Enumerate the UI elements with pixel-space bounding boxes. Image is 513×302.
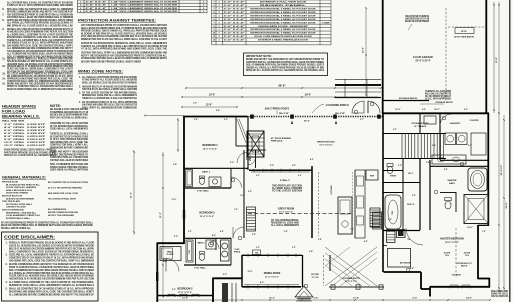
closet shelf top: [248, 149, 266, 151]
bedroom4 closet walls: [235, 116, 237, 146]
svg-text:ANCHOR BOLTS AT: ANCHOR BOLTS AT: [2, 195, 23, 198]
svg-text:NOTE:: NOTE:: [50, 104, 61, 108]
svg-text:13.: 13.: [2, 72, 6, 75]
svg-text:2X12 UNLESS NOTED OTHERWISE AN: 2X12 UNLESS NOTED OTHERWISE ANCHOR BOLTS…: [81, 35, 167, 38]
svg-text:EXTERIOR & FULL VIEW DOOR: EXTERIOR & FULL VIEW DOOR: [260, 2, 307, 4]
svg-text:CONTRACTOR SHALL VERIFY ALL: CONTRACTOR SHALL VERIFY ALL: [50, 144, 89, 147]
svg-text:COUNTER: COUNTER: [470, 120, 480, 122]
svg-text:2'-0": 2'-0": [256, 175, 260, 177]
garage center dashed line: [445, 8, 447, 100]
svg-text:8'-0" OPNG: 8'-0" OPNG: [4, 136, 24, 138]
stair treads: [401, 134, 403, 158]
bedroom3 door arc: [233, 227, 244, 238]
svg-text:1 3/4" VNYL CASEMENT GRIDS SGL: 1 3/4" VNYL CASEMENT GRIDS SGL 57 SCHLTE…: [111, 7, 178, 10]
svg-text:3'-0" X 6'-8": 3'-0" X 6'-8": [224, 15, 245, 17]
svg-text:2'-0": 2'-0": [298, 175, 302, 177]
svg-text:DOUBLE JOISTS UNDER ALL PARALL: DOUBLE JOISTS UNDER ALL PARALLEL PARTITI…: [7, 57, 73, 60]
svg-text:CODE AND ALL LOCAL AMENDMENTS: CODE AND ALL LOCAL AMENDMENTS THERETO AL…: [9, 254, 94, 257]
svg-text:12'-0" X 10'-0": 12'-0" X 10'-0": [319, 145, 332, 147]
exterior wall: bedroom4 top: [184, 116, 247, 118]
svg-text:MID SPAN OF ALL FLOOR JOISTS A: MID SPAN OF ALL FLOOR JOISTS ALL HEADERS…: [7, 24, 73, 27]
svg-text:14'-0": 14'-0": [467, 226, 472, 229]
svg-text:2'-8" X 6'-8": 2'-8" X 6'-8": [86, 1, 107, 3]
bath3 vanity: [209, 177, 221, 187]
svg-text:BEAR ON UNDISTURBED SOIL AT MI: BEAR ON UNDISTURBED SOIL AT MINIMUM DEPT…: [1, 224, 93, 227]
svg-text:ANCHOR BOLTS AT 48 INCHES ON C: ANCHOR BOLTS AT 48 INCHES ON CENTER MINI…: [82, 85, 137, 88]
svg-text:6X6 CYPRESS POSTS: 6X6 CYPRESS POSTS: [265, 109, 290, 111]
svg-text:CODE AND ALL LOCAL AMENDMENTS: CODE AND ALL LOCAL AMENDMENTS: [50, 128, 88, 131]
svg-text:FOOTINGS SHALL BEAR ON UNDISTU: FOOTINGS SHALL BEAR ON UNDISTURBED SOIL …: [7, 16, 73, 19]
svg-text:2'-8": 2'-8": [309, 251, 313, 253]
center west wall: [382, 113, 384, 272]
svg-text:6'-0" OPNG: 6'-0" OPNG: [4, 133, 24, 135]
sheet right border: [509, 0, 511, 302]
svg-text:6'-8": 6'-8": [432, 145, 436, 147]
svg-text:11' CLG: 11' CLG: [312, 277, 319, 279]
svg-text:ANCHOR BOLTS AT 48: ANCHOR BOLTS AT 48: [405, 18, 430, 21]
svg-text:MASTER: MASTER: [448, 179, 457, 182]
svg-text:FINISH GRADE PROVIDE DOUBLE: FINISH GRADE PROVIDE DOUBLE: [50, 166, 88, 169]
svg-text:PRIOR TO CONSTRUCTION ALL FOUN: PRIOR TO CONSTRUCTION ALL FOUNDATION FOO…: [9, 266, 94, 269]
garage south wall: [382, 112, 489, 114]
svg-text:GRADE PROVIDE DOUBLE JOISTS UN: GRADE PROVIDE DOUBLE JOISTS UNDER ALL PA…: [4, 149, 56, 152]
svg-text:THERETO ALL EXTERIOR WALLS SHA: THERETO ALL EXTERIOR WALLS SHALL BE CONS…: [7, 39, 74, 42]
svg-text:INTERIOR HORIZONTAL 6 PANEL HC: INTERIOR HORIZONTAL 6 PANEL HC POCKET DO…: [250, 11, 316, 14]
svg-text:CONSTRUCTION ALL FOUNDATION: CONSTRUCTION ALL FOUNDATION: [50, 156, 88, 159]
svg-text:6.: 6.: [2, 8, 4, 11]
toilet master: [445, 201, 451, 209]
svg-text:STORAGE ABOVE: STORAGE ABOVE: [435, 101, 453, 104]
svg-text:3'-0" X 6'-8": 3'-0" X 6'-8": [224, 5, 245, 7]
svg-text:SHALL BEAR ON UNDISTURBED SOIL: SHALL BEAR ON UNDISTURBED SOIL AT MINIMU…: [81, 27, 167, 30]
svg-text:2.: 2.: [79, 86, 81, 88]
svg-text:2'-8" X 6'-8": 2'-8" X 6'-8": [86, 8, 107, 10]
bath3 toilet: [199, 178, 204, 185]
svg-text:5'-8": 5'-8": [318, 239, 322, 241]
svg-text:DEPTH BELOW FINISH GRADE PROVI: DEPTH BELOW FINISH GRADE PROVIDE DOUBLE …: [7, 19, 73, 22]
svg-text:AT 16 O.C. WITH APPROVED SHEAT: AT 16 O.C. WITH APPROVED SHEATHING: [50, 138, 88, 141]
svg-text:BELOW FINISH GRADE PROVIDE DOU: BELOW FINISH GRADE PROVIDE DOUBLE JOISTS…: [81, 61, 141, 64]
svg-text:11'-6" X 11'-0": 11'-6" X 11'-0": [178, 292, 192, 294]
svg-text:TO THE LATEST EDITION: TO THE LATEST EDITION: [272, 190, 302, 193]
svg-text:4'-0": 4'-0": [260, 281, 264, 284]
svg-text:STUDS AT 16 O.C. WITH APPROVED: STUDS AT 16 O.C. WITH APPROVED SHEATHING…: [7, 4, 73, 7]
entry steps: [296, 296, 312, 298]
svg-text:PWDR: PWDR: [390, 176, 396, 178]
east wall main: [487, 113, 489, 226]
svg-text:THE DESIGNER OF ANY DISCREPANC: THE DESIGNER OF ANY DISCREPANCIES PRIOR …: [7, 50, 73, 53]
svg-text:11.: 11.: [2, 57, 6, 60]
svg-text:4'-6": 4'-6": [422, 108, 426, 111]
svg-text:5'-0" OPNG: 5'-0" OPNG: [4, 130, 24, 132]
svg-text:2-2X12 SYP: 2-2X12 SYP: [27, 142, 46, 144]
svg-text:2"X6" WALL: 2"X6" WALL: [194, 266, 206, 269]
svg-text:3'-6": 3'-6": [174, 236, 178, 238]
svg-text:BATH 2: BATH 2: [197, 242, 205, 245]
svg-text:BEFORE COMMENCING WORK AND NOT: BEFORE COMMENCING WORK AND NOTIFY THE DE…: [9, 263, 94, 266]
svg-text:WALL SIZE HDR: WALL SIZE HDR: [2, 120, 25, 123]
covered entry hatch: [325, 247, 377, 286]
svg-text:DINING ROOM: DINING ROOM: [264, 272, 280, 275]
svg-text:3'-0": 3'-0": [188, 231, 192, 233]
svg-text:AND SIDING PER LOCAL CODE THE: AND SIDING PER LOCAL CODE THE CONTRACTOR…: [9, 259, 94, 262]
foyer east wall: [329, 255, 331, 271]
svg-text:21'-0": 21'-0": [160, 212, 162, 218]
svg-text:TO THE LATEST EDITION OF THE I: TO THE LATEST EDITION OF THE INTERNATION…: [82, 91, 138, 94]
svg-text:WORK AND NOTIFY THE DESIGNER: WORK AND NOTIFY THE DESIGNER: [50, 151, 88, 154]
svg-text:13'-0": 13'-0": [182, 298, 188, 300]
bedroom2 door arc: [166, 259, 179, 272]
svg-text:DIMENSIONS BEFORE COMMENCING: DIMENSIONS BEFORE COMMENCING: [50, 147, 88, 149]
svg-text:TUB: TUB: [189, 249, 191, 253]
svg-text:THERETO ALL EXTERIOR: THERETO ALL EXTERIOR: [425, 90, 451, 93]
bedroom2 west window marker: [156, 272, 158, 281]
svg-text:CODE THE CONTRACTOR: CODE THE CONTRACTOR: [491, 295, 508, 298]
svg-text:FLOOR JOISTS ALL HEADERS SHALL: FLOOR JOISTS ALL HEADERS SHALL BE DOUBLE…: [9, 275, 94, 278]
svg-text:TUB: TUB: [392, 210, 394, 215]
svg-text:BLOCKING AT MID SPAN OF ALL: BLOCKING AT MID SPAN OF ALL: [6, 183, 41, 186]
svg-text:1 COVERED PORCH: 1 COVERED PORCH: [325, 104, 348, 107]
svg-text:ALL PARALLEL PARTITIONS PROVID: ALL PARALLEL PARTITIONS PROVIDE SOLID BL…: [82, 76, 137, 79]
shower: [464, 195, 488, 224]
svg-text:ANCHOR BOLTS AT 48 INCHES ON C: ANCHOR BOLTS AT 48 INCHES ON CENTER MINI…: [9, 277, 94, 280]
svg-text:2'-0": 2'-0": [270, 165, 274, 167]
svg-text:5'-4": 5'-4": [216, 109, 220, 112]
svg-text:THE CONTRACTOR SHALL VERIFY: THE CONTRACTOR SHALL VERIFY: [48, 198, 76, 201]
svg-text:2-2X10 SYP: 2-2X10 SYP: [27, 136, 46, 138]
svg-text:ALL DIMENSIONS: ALL DIMENSIONS: [48, 208, 67, 211]
svg-text:TWO PER PLATE SECTION: TWO PER PLATE SECTION: [272, 185, 302, 188]
svg-text:3'-0" X 6'-8": 3'-0" X 6'-8": [224, 22, 245, 24]
svg-text:CONSTRUCTION ALL FOUNDATION FO: CONSTRUCTION ALL FOUNDATION FOOTINGS SHA…: [246, 61, 324, 64]
svg-text:14'-0" X 17'-0": 14'-0" X 17'-0": [445, 241, 459, 244]
vanity with sinks: [432, 155, 466, 164]
svg-text:24'-11": 24'-11": [505, 201, 508, 208]
door schedule table (top middle): [212, 0, 332, 1]
svg-text:8'-0": 8'-0": [444, 169, 448, 171]
svg-text:RESIDENTIAL CODE AND: RESIDENTIAL CODE AND: [271, 222, 299, 225]
svg-text:INCHES ON CENTER MINIMUM: INCHES ON CENTER MINIMUM: [405, 21, 429, 23]
svg-text:SPACE: SPACE: [234, 251, 241, 254]
code disclaimer box: [2, 232, 99, 301]
svg-text:CLG: CLG: [445, 255, 450, 257]
svg-text:3'-0" X 6'-8": 3'-0" X 6'-8": [224, 26, 245, 28]
svg-text:3'-0" OPNG: 3'-0" OPNG: [4, 124, 24, 126]
svg-text:BEDROOM 2: BEDROOM 2: [177, 288, 193, 291]
svg-text:OTHERWISE ANCHOR BOLTS AT 48: OTHERWISE ANCHOR BOLTS AT 48: [50, 111, 89, 114]
svg-text:3'-0" X 6'-8": 3'-0" X 6'-8": [224, 19, 245, 21]
exterior wall: west jog at media closet: [157, 242, 185, 244]
hatched porch column: [222, 283, 228, 302]
svg-text:21'-0": 21'-0": [131, 192, 133, 198]
svg-text:2'-8": 2'-8": [173, 164, 177, 166]
svg-text:BATH 3: BATH 3: [202, 171, 211, 174]
svg-text:PROVIDE DOUBLE JOISTS UNDER AL: PROVIDE DOUBLE JOISTS UNDER ALL PARALLEL…: [81, 30, 167, 33]
svg-text:3'-0" X 6'-8": 3'-0" X 6'-8": [224, 29, 245, 31]
svg-text:TWO PER PLATE: TWO PER PLATE: [2, 200, 21, 203]
svg-text:7.: 7.: [2, 13, 4, 16]
svg-text:OF THE INTERNATIONAL: OF THE INTERNATIONAL: [271, 219, 300, 222]
svg-text:23'-4": 23'-4": [495, 57, 498, 63]
svg-text:MASTER BEDROOM: MASTER BEDROOM: [440, 238, 463, 241]
svg-text:1'-0": 1'-0": [193, 103, 197, 105]
entry gable triangles: [295, 286, 313, 297]
svg-text:RESIDENTIAL CODE AND ALL: RESIDENTIAL CODE AND ALL: [6, 211, 37, 214]
bath3 south wall: [184, 187, 231, 189]
exterior wall: west: [183, 116, 185, 244]
svg-text:PRIOR TO CONSTRUCTION ALL FOUN: PRIOR TO CONSTRUCTION ALL FOUNDATION FOO…: [7, 85, 74, 88]
svg-text:2.: 2.: [6, 255, 8, 257]
svg-text:10.: 10.: [2, 44, 6, 47]
svg-text:SLIDING BARN DOORS - BARN RELI: SLIDING BARN DOORS - BARN RELIEF: [258, 25, 309, 28]
svg-text:1'-6": 1'-6": [234, 209, 238, 211]
svg-text:8'-0": 8'-0": [413, 298, 418, 300]
svg-text:BE CONSTRUCTED OF 2X4 WOOD STU: BE CONSTRUCTED OF 2X4 WOOD STUDS: [50, 135, 88, 138]
svg-text:AT MID SPAN OF ALL FLOOR JOIST: AT MID SPAN OF ALL FLOOR JOISTS ALL HEAD…: [82, 79, 137, 82]
svg-text:LOCAL AMENDMENTS THERETO ALL: LOCAL AMENDMENTS THERETO ALL: [6, 214, 41, 217]
svg-text:2X4 WOOD STUDS AT 16 O.C. WITH: 2X4 WOOD STUDS AT 16 O.C. WITH APPROVED …: [7, 42, 73, 45]
svg-text:INTERNATIONAL RESIDENTIAL CODE: INTERNATIONAL RESIDENTIAL CODE AND ALL L…: [7, 36, 73, 39]
svg-text:REF: REF: [370, 176, 375, 178]
hall door arcs: [231, 177, 242, 188]
approach walk lines left of garage: [335, 78, 381, 80]
bedroom4 door arc: [237, 152, 248, 163]
svg-text:FOUNDATION FOOTINGS SHALL BEAR: FOUNDATION FOOTINGS SHALL BEAR ON UNDIST…: [81, 57, 167, 60]
mud bench: [424, 116, 436, 124]
svg-text:WIND ZONE NOTES:: WIND ZONE NOTES:: [78, 69, 123, 74]
svg-text:3'-0": 3'-0": [398, 165, 402, 167]
svg-text:DBL 2"X8": DBL 2"X8": [279, 113, 289, 115]
washer dryer: [445, 133, 456, 145]
svg-text:1.: 1.: [79, 77, 81, 79]
svg-text:7'-0": 7'-0": [350, 229, 354, 231]
svg-text:PER LOCAL CODE THE CONTRACTOR: PER LOCAL CODE THE CONTRACTOR SHALL VERI…: [7, 8, 73, 11]
svg-text:12'-0": 12'-0": [248, 271, 253, 273]
svg-text:SOLID BLOCKING AT MID SPAN OF: SOLID BLOCKING AT MID SPAN OF ALL FLOOR …: [7, 60, 74, 63]
svg-text:20'-0": 20'-0": [434, 109, 439, 111]
svg-text:17'-1" X 17'-0": 17'-1" X 17'-0": [279, 212, 293, 214]
svg-text:PROTECTION AGAINST TERMITES:: PROTECTION AGAINST TERMITES:: [78, 18, 156, 23]
svg-text:BEFORE COMMENCING WORK AND: BEFORE COMMENCING WORK AND: [48, 211, 78, 214]
svg-text:PROVIDE SOLID: PROVIDE SOLID: [2, 182, 18, 184]
svg-text:3.: 3.: [6, 264, 8, 266]
bath3 tub: [186, 170, 193, 187]
svg-text:UNDER ALL PARALLEL PARTITIONS: UNDER ALL PARALLEL PARTITIONS PROVIDE SO…: [246, 66, 324, 69]
svg-text:BATH: BATH: [449, 182, 455, 185]
svg-text:29'-0": 29'-0": [304, 121, 310, 123]
west wall great/dining: [241, 255, 243, 279]
svg-text:4.: 4.: [79, 101, 81, 104]
svg-text:AND SIDING PER LOCAL CODE THE: AND SIDING PER LOCAL CODE THE CONTRACTOR…: [7, 44, 73, 47]
kitchen island: [338, 197, 352, 234]
svg-text:CODE DISCLAIMER:: CODE DISCLAIMER:: [4, 235, 56, 240]
hall closet arcs: [248, 157, 256, 165]
svg-text:RESIDENTIAL CODE AND ALL LOCAL: RESIDENTIAL CODE AND ALL LOCAL AMENDMENT…: [82, 94, 137, 97]
svg-text:ALL LOCAL AMENDMENTS THERETO A: ALL LOCAL AMENDMENTS THERETO ALL EXTERIO…: [7, 72, 73, 75]
svg-text:BEAR ON UNDISTURBED SOIL AT MI: BEAR ON UNDISTURBED SOIL AT MINIMUM DEPT…: [7, 88, 73, 91]
svg-text:INTERIOR HORIZONTAL 6 PANEL HC: INTERIOR HORIZONTAL 6 PANEL HC POCKET DO…: [250, 18, 316, 21]
svg-text:SHALL BE CONSTRUCTED OF 2X4 WO: SHALL BE CONSTRUCTED OF 2X4 WOOD STUDS A…: [9, 288, 94, 291]
svg-text:12'-6": 12'-6": [206, 104, 213, 107]
right dim lines: [493, 2, 495, 113]
hall walls: [243, 150, 245, 238]
svg-text:ANY DISCREPANCIES PRIOR TO CON: ANY DISCREPANCIES PRIOR TO CONSTRUCTION …: [81, 24, 167, 27]
covered porch leader: [312, 104, 324, 113]
kitchen dashed counter line: [318, 172, 320, 236]
art niche: [388, 249, 411, 268]
master west jog: [420, 272, 422, 289]
svg-text:3'-0" X 6'-8": 3'-0" X 6'-8": [224, 12, 245, 14]
svg-text:5'-0": 5'-0": [172, 289, 176, 291]
svg-text:AND SIDING PER LOCAL CODE: AND SIDING PER LOCAL CODE: [48, 192, 78, 195]
svg-text:STORAGE ABOVE: STORAGE ABOVE: [399, 97, 418, 100]
svg-text:2-2X6 SYP: 2-2X6 SYP: [27, 127, 46, 129]
svg-text:TWO PER PLATE SECTION ALL WORK: TWO PER PLATE SECTION ALL WORK SHALL CON…: [82, 88, 137, 91]
svg-text:5'-0": 5'-0": [412, 195, 416, 197]
svg-text:MATCH: MATCH: [461, 264, 468, 267]
great room dashed ceiling line: [248, 213, 352, 215]
svg-text:3'-0" X 6'-8": 3'-0" X 6'-8": [224, 36, 245, 38]
svg-text:2-2X6 SYP: 2-2X6 SYP: [27, 124, 46, 126]
fireplace hatched: [247, 131, 264, 157]
garage entry door arcs: [352, 101, 364, 113]
svg-text:3'-0" X 6'-8": 3'-0" X 6'-8": [224, 40, 245, 42]
svg-text:PARTITIONS PROVIDE SOLID BLOCK: PARTITIONS PROVIDE SOLID BLOCKING AT MID: [4, 151, 56, 154]
svg-text:ALL WORK SHALL CONFORM TO THE: ALL WORK SHALL CONFORM TO THE LATEST EDI…: [7, 33, 73, 36]
extra dim ticks: [241, 87, 243, 89]
svg-text:SHALL BE DOUBLE 2X12 UNLESS NO: SHALL BE DOUBLE 2X12 UNLESS NOTED OTHERW…: [82, 81, 137, 84]
svg-text:2'-8" X 6'-8": 2'-8" X 6'-8": [86, 5, 107, 7]
svg-text:FOYER: FOYER: [311, 274, 319, 276]
svg-text:SOIL AT MINIMUM DEPTH BELOW FI: SOIL AT MINIMUM DEPTH BELOW FINISH GRADE…: [9, 269, 94, 272]
svg-text:3'-0": 3'-0": [256, 247, 260, 249]
svg-text:CONSTRUCTED OF 2X4 WOOD STUDS: CONSTRUCTED OF 2X4 WOOD STUDS AT 16 O.C.…: [9, 257, 94, 260]
svg-text:ATTIC: ATTIC: [461, 30, 467, 33]
svg-text:DOUBLE 2X12 UNLESS NOTED OTHER: DOUBLE 2X12 UNLESS NOTED OTHERWISE ANCHO…: [7, 28, 74, 31]
svg-text:14'-0": 14'-0": [466, 297, 472, 300]
svg-text:SHALL CONFORM TO THE LATEST ED: SHALL CONFORM TO THE LATEST EDITION OF T…: [9, 250, 95, 253]
svg-text:SHALL VERIFY ALL DIMENSIONS BE: SHALL VERIFY ALL DIMENSIONS BEFORE COMME…: [82, 106, 137, 109]
svg-text:ALL DIMENSIONS BEFORE COMMENCI: ALL DIMENSIONS BEFORE COMMENCING WORK AN…: [9, 293, 95, 296]
svg-text:4'-2": 4'-2": [310, 158, 314, 161]
master bath: [430, 165, 488, 167]
svg-text:MINIMUM TWO PER PLATE SECTION: MINIMUM TWO PER PLATE SECTION ALL WORK S…: [81, 38, 168, 41]
svg-text:EDITION OF THE INTERNATIONAL R: EDITION OF THE INTERNATIONAL RESIDENTIAL…: [81, 42, 167, 45]
svg-text:UNLESS NOTED OTHERWISE: UNLESS NOTED OTHERWISE: [6, 193, 28, 195]
svg-text:12'-0" OPNG: 12'-0" OPNG: [4, 145, 24, 147]
svg-text:GREAT ROOM: GREAT ROOM: [278, 208, 294, 211]
svg-text:WALLS SHALL BE CONSTRUCTED: WALLS SHALL BE CONSTRUCTED: [425, 93, 451, 96]
svg-text:3'-0": 3'-0": [230, 162, 234, 164]
svg-text:SOIL AT MINIMUM DEPTH BELOW: SOIL AT MINIMUM DEPTH BELOW: [50, 163, 89, 166]
garage left dim line: [365, 8, 367, 95]
svg-text:INTERIOR HORIZONTAL 6 PANEL HC: INTERIOR HORIZONTAL 6 PANEL HC POCKET DO…: [250, 21, 316, 24]
bedroom2 south wall with windows: [157, 295, 213, 297]
svg-text:LAUNDRY: LAUNDRY: [450, 122, 461, 125]
svg-text:17'-8" X 7'-0": 17'-8" X 7'-0": [345, 281, 357, 283]
svg-text:WORK AND NOTIFY THE DESIGNER O: WORK AND NOTIFY THE DESIGNER OF ANY DISC…: [246, 58, 324, 61]
attic access box: [455, 28, 474, 34]
svg-text:12.: 12.: [2, 65, 6, 68]
svg-text:4.: 4.: [6, 281, 8, 284]
bath3 north wall: [184, 167, 248, 169]
svg-text:SPAN OF ALL FLOOR JOISTS ALL H: SPAN OF ALL FLOOR JOISTS ALL HEADERS SHA…: [4, 154, 57, 157]
svg-text:ALL FOUNDATION FOOTINGS SHALL: ALL FOUNDATION FOOTINGS SHALL BEAR ON UN…: [7, 53, 73, 56]
powder room: [383, 170, 403, 172]
svg-text:3.: 3.: [79, 92, 81, 94]
svg-text:ALL LOCAL AMENDMENTS: ALL LOCAL AMENDMENTS: [271, 224, 299, 227]
svg-text:THERETO ALL EXTERIOR WALLS SHA: THERETO ALL EXTERIOR WALLS SHALL: [50, 133, 88, 136]
svg-text:15.: 15.: [2, 82, 6, 85]
covered porch screen band with posts: [247, 116, 383, 118]
svg-text:2'-6": 2'-6": [388, 219, 392, 221]
svg-text:CLG: CLG: [465, 255, 470, 257]
svg-text:SPAN OF ALL FLOOR JOISTS ALL H: SPAN OF ALL FLOOR JOISTS ALL HEADERS SHA…: [246, 69, 325, 72]
svg-text:2-2X8 SYP: 2-2X8 SYP: [27, 133, 46, 135]
svg-text:4'-0": 4'-0": [364, 240, 368, 243]
svg-text:5'-3": 5'-3": [223, 274, 227, 276]
mud hall walls: [383, 133, 446, 135]
svg-text:8' WALL 8': 8' WALL 8': [280, 179, 290, 182]
svg-text:3'-0" X 6'-8": 3'-0" X 6'-8": [224, 2, 245, 4]
svg-text:SOIL AT MINIMUM DEPTH BELOW FI: SOIL AT MINIMUM DEPTH BELOW FINISH GRADE…: [246, 64, 324, 67]
svg-text:NOTIFY THE DESIGNER OF ANY DIS: NOTIFY THE DESIGNER OF ANY DISCREPANCIES…: [81, 54, 168, 57]
svg-text:IMPORTANT NOTE:: IMPORTANT NOTE:: [246, 55, 272, 58]
plan dimension line 29-0: [182, 96, 378, 98]
svg-text:3'-0" X 6'-8": 3'-0" X 6'-8": [224, 9, 245, 11]
svg-text:ANCHOR BOLTS AT 48 INCHES ON C: ANCHOR BOLTS AT 48 INCHES ON CENTER MINI…: [7, 65, 73, 68]
svg-text:1 3/4" VNYL CASEMENT GRIDS SGL: 1 3/4" VNYL CASEMENT GRIDS SGL 57 SCHLTE…: [111, 0, 178, 3]
svg-text:2'-8": 2'-8": [284, 231, 288, 233]
svg-text:12'-0" X 11'-0": 12'-0" X 11'-0": [200, 216, 214, 218]
exterior wall: west lower: [156, 243, 158, 302]
master east wall: [477, 225, 479, 279]
master south wall w/ windows: [430, 286, 490, 288]
svg-text:64'-11 1/2": 64'-11 1/2": [500, 165, 503, 176]
oven/stack cabinet: [221, 240, 230, 261]
svg-text:3'-6": 3'-6": [252, 234, 256, 236]
svg-text:1 PAIR: 1 PAIR: [322, 21, 331, 24]
svg-text:11'-0" X 13'-0": 11'-0" X 13'-0": [265, 276, 279, 278]
svg-text:ART NICHE: ART NICHE: [400, 262, 411, 265]
svg-text:SHALL BE DOUBLE 2X12: SHALL BE DOUBLE 2X12: [6, 189, 33, 192]
svg-text:2-CAR GARAGE: 2-CAR GARAGE: [413, 55, 433, 59]
svg-text:23'-4" X 23'-4": 23'-4" X 23'-4": [415, 60, 430, 63]
kitchen west wall: [311, 166, 313, 238]
svg-text:FLOOR JOISTS ALL HEADERS: FLOOR JOISTS ALL HEADERS: [6, 186, 36, 189]
svg-text:CLOSET: CLOSET: [166, 254, 174, 256]
dining south window wall: [242, 286, 301, 288]
pantry hatch: [370, 208, 380, 227]
svg-text:ANY DISCREPANCIES PRIOR TO CON: ANY DISCREPANCIES PRIOR TO CONSTRUCTION …: [7, 13, 73, 16]
svg-text:INTERIOR HORIZONTAL 6 PANEL HC: INTERIOR HORIZONTAL 6 PANEL HC POCKET DO…: [250, 28, 316, 31]
media closet: [160, 247, 181, 261]
svg-text:ALL PARALLEL PARTITIONS PROVID: ALL PARALLEL PARTITIONS PROVIDE SOLID BL…: [7, 22, 74, 25]
left leader to wall: [145, 115, 184, 117]
svg-text:THERETO ALL EXTERIOR WALLS SHA: THERETO ALL EXTERIOR WALLS SHALL BE CONS…: [81, 45, 167, 48]
svg-text:RESIDENTIAL CODE AND ALL LOCAL: RESIDENTIAL CODE AND ALL LOCAL AMENDMENT…: [9, 284, 94, 287]
svg-text:KITCHEN: KITCHEN: [331, 185, 333, 195]
svg-text:M.W.I.C.: M.W.I.C.: [407, 204, 415, 206]
laundry room: [439, 113, 441, 160]
svg-text:EXTERIOR 6 PANEL FIBERGLASS DO: EXTERIOR 6 PANEL FIBERGLASS DOOR: [258, 39, 308, 42]
svg-text:3'-1": 3'-1": [360, 119, 364, 121]
gas meter box: [253, 250, 261, 255]
svg-text:OF 2X4 WOOD STUDS AT: OF 2X4 WOOD STUDS AT: [425, 95, 452, 98]
svg-text:ATTIC STAIR ABOVE: ATTIC STAIR ABOVE: [454, 36, 474, 39]
plan dimension line 12-6: [182, 106, 237, 108]
garage west wall: [382, 0, 384, 114]
